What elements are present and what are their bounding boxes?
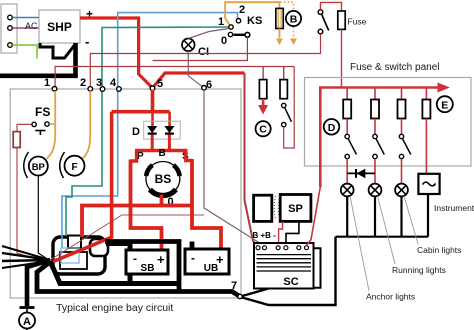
svg-text:Anchor lights: Anchor lights [366,292,415,302]
ground cable [27,260,50,306]
diode D1 [148,126,157,133]
wire red BS bottom [160,195,164,206]
wire teal KS1 to engine [66,27,231,236]
panel branch 3 [398,88,411,184]
wire blue KS2 to terminal 4 [62,13,238,248]
wire red terminal5 to diode split [151,90,155,112]
wire AC blue [13,17,40,19]
svg-text:6: 6 [206,79,212,91]
battery charger SHP [39,10,80,43]
wire orange terminal1 to BP [47,91,56,159]
wire Fuse to panel bus [341,29,343,87]
engine bay box [10,89,241,298]
wire red feeder vertical to SC [245,73,259,246]
lamp anchor [341,184,354,197]
wire maroon engine sense [50,215,204,260]
lamp cabin [395,184,408,197]
diode box D [132,121,180,139]
svg-text:CI: CI [198,46,209,58]
node terminal 1 [52,87,57,92]
svg-text:1: 1 [44,77,50,89]
svg-text:7: 7 [231,280,237,292]
AC shore-power inlet box [1,4,17,53]
starter cable spikes [2,246,50,268]
svg-text:2: 2 [239,4,245,16]
node SC t3 [276,246,280,250]
svg-text:Typical engine bay circuit: Typical engine bay circuit [56,302,173,314]
wire orange terminal2 to F [83,91,91,159]
float switch FS [32,105,55,135]
node SC t1 [256,246,260,250]
wire red loop left to starter [52,112,112,262]
fuse main Fuse [338,11,367,29]
panel branch 4 instrument feed [422,88,430,174]
svg-text:+: + [216,252,224,267]
svg-text:Fuse & switch panel: Fuse & switch panel [350,62,440,73]
node B [286,11,301,26]
fuse bilge [13,132,20,148]
wire red S post to UB+ [192,159,221,249]
wire orange dotted through B [280,2,297,45]
cable SB negative [106,244,130,284]
svg-text:D: D [132,126,140,138]
pump F [60,152,85,178]
wire red P step [131,151,137,162]
node SC t5 [297,246,301,250]
svg-text:-: - [85,34,89,49]
callout line anchor [350,196,369,291]
svg-text:BS: BS [155,172,172,186]
svg-text:1: 1 [218,16,224,28]
wire lamp returns [336,194,429,237]
svg-text:C: C [259,124,267,136]
arrow C red [258,99,268,115]
wire junction to lights return [242,237,336,305]
wire CI to KS1 purple [188,29,229,39]
wire fuse down to engine maroon [17,148,36,260]
svg-text:0: 0 [221,35,227,47]
svg-text:SC: SC [283,276,298,288]
wire AC green [13,45,38,59]
toggle switch main [318,10,329,34]
wire purple terminal 6 to SC [204,90,265,246]
panel branch 2 [371,88,384,184]
node SC t2 [263,246,267,250]
wire panel bus to SC [307,187,321,246]
node E [437,96,453,112]
wire toggle bottom to terminal 2 [90,34,320,89]
lamp running [369,184,382,197]
node SC t6 [305,246,309,250]
wire FS to fuse maroon [17,124,32,131]
svg-text:FS: FS [35,105,50,119]
wire KS pivot to feeder [153,37,248,60]
wire orange key feed [225,2,279,26]
wire red panel bus [320,88,437,188]
battery SB [126,250,168,274]
svg-text:F: F [71,162,77,173]
node terminal 4 [117,87,122,92]
svg-text:B: B [159,148,166,159]
diode anchor light [347,169,375,179]
panel branch 1 [343,88,356,184]
wire AC purple [13,27,40,29]
cable UB negative [105,242,192,292]
svg-text:SP: SP [288,203,303,215]
node terminal 2 [88,87,93,92]
wire SP- black [286,221,299,245]
svg-text:SB: SB [141,263,155,274]
svg-text:Instrument: Instrument [434,203,474,213]
key switch KS [218,4,262,47]
fold dotted lines [274,196,279,220]
wire SP+ red [279,221,283,245]
svg-text:-: - [133,252,137,266]
diode D2 [165,126,174,133]
switch accessory [282,103,292,127]
engine block [53,236,108,275]
node terminal 6 [202,86,207,91]
wire red diode outputs [152,135,169,151]
svg-text:+: + [157,252,165,267]
node A [19,309,35,330]
instrument [418,174,439,194]
arrow E red [438,83,451,93]
svg-text:-: - [191,251,195,265]
battery UB [185,249,229,274]
fuse engine (tan) [276,8,284,28]
svg-text:A: A [23,316,31,328]
svg-text:AC: AC [25,21,38,31]
svg-text:BP: BP [32,162,46,173]
callout line cabin [404,196,418,244]
solar panel SP [280,195,311,222]
svg-text:SHP: SHP [47,20,72,34]
wire orange arrow below fuse [276,29,283,46]
ground bar [20,306,35,309]
svg-text:4: 4 [110,77,117,89]
svg-text:B +B -: B +B - [253,231,277,240]
terminal labels 1-6 [44,77,212,91]
solenoid cyan box [61,248,79,263]
wire red starter bus [82,206,192,238]
wire toggle to Fuse red [321,2,342,11]
wire SHP- black hook [40,43,75,58]
svg-text:Fuse: Fuse [348,17,367,27]
node terminal 3 [100,87,105,92]
terminal strip SC [254,243,321,289]
svg-text:Cabin lights: Cabin lights [417,245,461,255]
wire red into diodes [153,112,170,126]
battery switch BS [146,162,180,196]
svg-text:E: E [441,99,448,111]
svg-text:KS: KS [247,15,262,27]
wire accessory return loop [284,67,295,149]
fuse C branch [259,67,266,99]
node C [256,121,271,136]
node SC t4 [284,246,288,250]
wire red V right branch to vertical feeder [153,73,245,88]
wire red diode top bar [112,110,170,114]
wire BP return black [38,176,48,260]
wire junction to SC [242,289,269,297]
wire red bus y66 from terminal 1 [55,67,294,89]
solar panel left half [254,195,272,221]
node terminal 5 [150,86,155,91]
wire red P post to SB+ [131,160,162,251]
svg-text:2: 2 [80,77,86,89]
fuse accessory branch [280,67,287,99]
svg-text:B: B [290,14,298,26]
pump BP [24,152,48,178]
wire CI to terminal 6 purple [188,51,204,88]
svg-text:5: 5 [157,78,163,90]
black bus 2 to terminal 7 [37,262,240,297]
wire red S step [186,151,192,161]
node terminal 7 junction [238,294,242,298]
fuse & switch panel box [305,78,472,167]
node D [324,119,340,135]
black bus 1 (battery negatives) [50,261,178,284]
svg-text:Running lights: Running lights [392,265,446,275]
callout line running [378,196,396,264]
svg-text:D: D [328,122,336,134]
wire red BS top bar [135,149,188,152]
lamp CI charge indicator [182,39,209,59]
wire SHP+ red to terminal 5 [80,18,153,88]
